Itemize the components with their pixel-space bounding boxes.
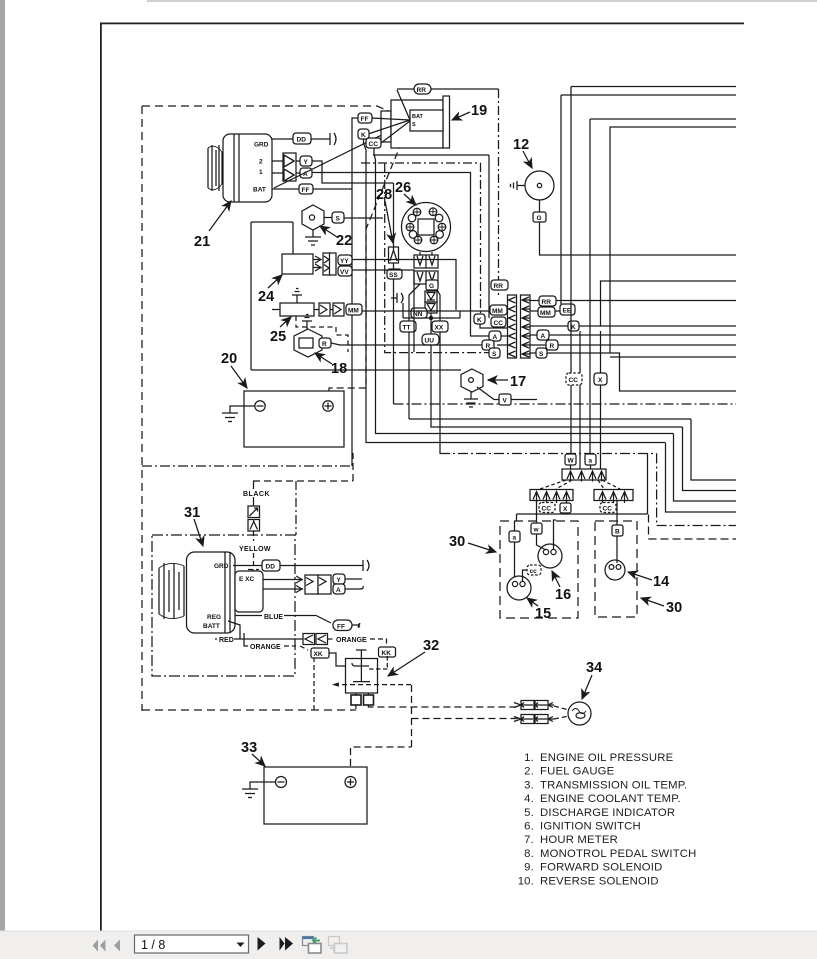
wire CC switch drop [374,148,674,434]
node junction NN [429,316,433,320]
svg-text:3.: 3. [524,779,534,791]
label 25 [270,329,286,345]
first page button [93,940,106,952]
svg-text:5.: 5. [524,807,534,819]
socket 16 [538,544,562,568]
connector R right [546,340,558,350]
connector strip left [508,295,517,358]
wire R run [530,344,736,346]
svg-text:RED: RED [219,637,234,644]
wire MM-EE link [530,310,560,312]
pedal switch 32 assembly [334,650,412,693]
svg-text:16: 16 [555,587,571,603]
dashed battery cable to switch [377,106,409,120]
leader 26 [404,194,416,205]
connector Y [300,156,312,166]
svg-text:FF: FF [361,116,369,123]
leader 18 [315,353,332,364]
svg-text:31: 31 [184,505,200,521]
svg-text:TT: TT [403,325,411,332]
svg-text:W: W [568,458,575,465]
connector XK [311,648,329,658]
wire ORANGE lower [244,633,248,646]
label 31 [184,505,200,521]
leader 12 [523,151,532,168]
label 12 [513,137,529,153]
svg-text:ORANGE: ORANGE [336,637,367,644]
svg-text:1.: 1. [524,752,534,764]
regulator EXC box [235,571,263,612]
previous view icon [303,937,322,954]
connector RR left [491,280,508,290]
svg-text:BATT: BATT [203,623,220,630]
svg-text:9.: 9. [524,862,534,874]
staircase wire 6 dashed [649,515,737,540]
svg-text:14: 14 [653,574,669,590]
lamp bar right [594,490,633,504]
wire junction row [403,311,683,427]
lamp bar left [530,490,573,504]
lamp 34 [568,702,591,725]
connector UU [422,334,439,345]
svg-text:E XC: E XC [239,576,254,583]
svg-text:ENGINE OIL PRESSURE: ENGINE OIL PRESSURE [540,752,674,764]
svg-text:REVERSE SOLENOID: REVERSE SOLENOID [540,875,659,887]
battery 20 [244,391,344,447]
connector A [300,168,312,178]
svg-text:X: X [563,506,568,513]
connector A gen [333,584,345,594]
connector CC left [491,317,506,327]
alternator terminal labels [253,142,269,194]
svg-text:CC: CC [494,320,504,327]
svg-text:a: a [513,535,517,542]
leader 32 [388,652,425,676]
diode 1 [425,291,437,302]
connector FF alternator [299,184,313,194]
leader 21 [209,201,231,231]
generator excite contacts [263,575,331,594]
wire YELLOW [248,531,259,571]
instrument panel box [610,127,736,357]
next view icon disabled [329,937,348,954]
wire row2 to G diode chain [431,284,433,287]
svg-text:HOUR METER: HOUR METER [540,834,618,846]
svg-text:1: 1 [259,169,263,176]
connector XX [432,321,448,332]
label 24 [258,289,274,305]
connector MM left [490,305,507,315]
resistor 25 box [272,289,314,317]
label 17 [510,374,526,390]
wire B harness [590,119,736,455]
connector EE [560,304,575,315]
svg-text:REG: REG [207,614,221,621]
svg-text:w: w [533,527,540,534]
connector b top [585,454,596,465]
connector V [499,394,511,405]
condenser gen [363,560,369,571]
connector FF oval gen [333,620,352,631]
svg-text:FORWARD SOLENOID: FORWARD SOLENOID [540,862,662,874]
pedal contact right [364,693,374,705]
wire Y A stubs [345,579,363,589]
svg-text:26: 26 [395,180,411,196]
connector K switch [358,129,369,139]
staircase wire 2 [683,427,737,491]
sender 17 hexagon [461,369,499,400]
connector SS [387,269,402,279]
wire K stub to strip [480,324,507,328]
wire w to socket16 [537,501,547,551]
connector DD gen [262,560,280,571]
svg-text:RR: RR [417,87,427,94]
last page button [280,937,294,951]
toolbar background [0,931,817,959]
svg-text:S: S [539,351,544,358]
wire socket16 right pin [554,520,557,549]
sender 24 contacts [313,253,336,275]
leader 25 [280,317,291,327]
svg-text:6.: 6. [524,821,534,833]
connector A left [489,331,501,341]
svg-text:30: 30 [666,600,682,616]
svg-text:S: S [336,216,341,223]
svg-text:7.: 7. [524,834,534,846]
connector CC bar left [539,503,555,513]
svg-text:V: V [503,398,508,405]
ground sender 22 [305,230,321,245]
svg-text:2.: 2. [524,766,534,778]
wire FF net riser [352,118,358,189]
leader 19 [452,112,470,120]
wire battery33 to lamp row2 [351,685,521,766]
leader 22 [320,226,337,237]
wire GRD to condenser gen [233,565,363,567]
svg-text:DD: DD [297,137,307,144]
generator 31 body [159,552,235,633]
viewer top hairline [147,0,817,2]
connector K right [568,321,579,331]
lamp box 30 right [595,521,637,617]
label 15 [535,606,551,622]
svg-text:FF: FF [302,187,310,194]
svg-text:20: 20 [221,351,237,367]
label 34 [586,660,602,676]
battery 33 [264,767,367,824]
svg-text:IGNITION SWITCH: IGNITION SWITCH [540,821,641,833]
dash-dot S wire from switch [361,163,481,316]
socket 14 [605,560,625,580]
connector MM right [538,307,555,317]
wire MM run to strip [362,310,507,312]
svg-text:Y: Y [304,159,309,166]
connector S left [489,348,500,358]
svg-text:ENGINE COOLANT TEMP.: ENGINE COOLANT TEMP. [540,793,681,805]
wire SS drop to harness [393,279,395,404]
svg-text:K: K [571,324,576,331]
page frame top edge [100,23,744,25]
svg-text:MM: MM [492,308,503,315]
svg-text:S: S [412,122,416,128]
wire YY run [352,260,456,311]
svg-text:UU: UU [425,338,435,345]
wire orange dashed to KK [328,639,387,648]
wire G horn [539,200,541,212]
wire pairs to lamp 34 [554,706,569,719]
lamp connector pair row1 [514,701,554,710]
label 22 [336,233,352,249]
connector strip right [521,295,531,358]
lamp connector pair row2 [514,715,554,724]
svg-text:34: 34 [586,660,602,676]
svg-text:19: 19 [471,103,487,119]
hour meter connector row 2 [414,271,438,284]
viewer left scrollbar strip [0,0,5,931]
leader 30 left [468,543,496,552]
connector CC bar right [600,503,616,513]
leader 17 [488,379,508,381]
leader 16 [552,571,560,587]
condenser near NN [391,293,403,318]
prev page button [114,940,120,952]
svg-text:GRD: GRD [214,563,229,570]
wire RR run [530,300,736,302]
svg-text:21: 21 [194,234,210,250]
connector B lamp [612,525,623,536]
svg-text:cc: cc [530,568,538,575]
wire CC lamp harness [579,331,581,470]
svg-text:BAT: BAT [412,114,424,120]
wire B to socket14 [616,501,618,564]
svg-text:25: 25 [270,329,286,345]
label 30 right [666,600,682,616]
staircase wire 4 [666,443,737,512]
wire a to socket15 [514,521,516,577]
wire S run with jog [530,353,736,391]
connector G meter [426,280,438,290]
svg-text:TRANSMISSION OIL TEMP.: TRANSMISSION OIL TEMP. [540,779,687,791]
svg-text:MM: MM [540,310,551,317]
ignition switch 19 [381,96,450,148]
wire BAT through FF [272,188,352,190]
label 28 [376,187,392,203]
connector X mid [594,373,607,385]
connector w top [565,454,576,465]
dashed wire bottom to pedal switch [142,709,356,711]
dashed splice right [598,480,620,489]
wire Y to fuse column [296,161,394,183]
dash-dot S drop left [385,163,489,353]
svg-text:R: R [322,341,327,348]
svg-text:B: B [615,529,620,536]
connector KK [379,647,396,657]
svg-text:GRD: GRD [254,142,269,149]
svg-text:1 / 8: 1 / 8 [141,938,165,952]
dashed black-wire harness segment [253,453,353,481]
wire A long to connector strip [296,173,507,337]
hour meter connector row 1 [414,252,438,268]
wire long to sender 17 [251,369,461,371]
wire BLACK drop [253,481,255,506]
dashed link resistor to S harness [296,316,348,352]
svg-text:SS: SS [389,272,398,279]
label 33 [241,740,257,756]
label 26 [395,180,411,196]
svg-text:15: 15 [535,606,551,622]
wire G run right [540,222,737,255]
connector FF switch [358,113,372,123]
svg-text:ORANGE: ORANGE [250,644,281,651]
leader 31 [194,519,203,546]
wire FF net to harness dashdot [351,189,353,466]
ground battery 33 [242,782,276,798]
svg-text:RR: RR [542,299,552,306]
wire pedal left contact drop [355,705,357,710]
svg-text:MONOTROL PEDAL SWITCH: MONOTROL PEDAL SWITCH [540,848,697,860]
svg-text:YY: YY [340,258,349,265]
dashed harness border top [142,105,377,107]
ground battery 20 [222,406,255,422]
wire XK to pedal [329,653,346,666]
wire XK riser [313,658,315,710]
wire X lamp harness [600,331,602,470]
svg-text:24: 24 [258,289,274,305]
connector RR oval [414,84,431,94]
svg-text:32: 32 [423,638,439,654]
label 18 [331,361,347,377]
svg-text:28: 28 [376,187,392,203]
connector S right [536,348,547,358]
wire RR from switch [397,88,499,90]
svg-text:G: G [429,283,434,290]
generator terminal labels [203,563,229,630]
wire pedal to lamp row1 [368,705,520,707]
connector a lamp [509,531,520,542]
connector K left [474,314,485,324]
svg-text:a: a [589,458,593,465]
page frame left edge [100,23,102,932]
wire V stub [511,399,537,401]
svg-text:2: 2 [259,159,263,166]
svg-text:KK: KK [382,650,392,657]
connector NN [411,308,427,318]
wire GRD to condenser [272,138,330,140]
leader 14 [628,572,652,580]
main harness connector bar [562,465,606,482]
svg-text:18: 18 [331,361,347,377]
label 20 [221,351,237,367]
wire W harness [571,87,736,456]
staircase wire 3 [674,434,737,502]
dashed cable switch to battery 20 [329,122,410,392]
svg-text:VV: VV [340,269,349,276]
hour meter 26 [402,203,451,252]
contact arrows terminals 2 and 1 [272,153,296,181]
alternator 21 [208,134,272,202]
svg-text:FUEL GAUGE: FUEL GAUGE [540,766,615,778]
wire dashed to XK [284,646,308,650]
staircase wire 5 bend [657,454,736,526]
leader 30 right [641,598,664,606]
label 30 left [449,534,465,550]
leader 15 [527,598,538,606]
socket 15 [507,576,531,600]
wire FF squiggle [352,624,360,628]
connector TT [400,321,416,332]
leader 24 [268,275,282,288]
connector DD [293,133,311,144]
page combo box [135,935,249,953]
wire BLUE [235,616,331,624]
staircase wire 1 [691,419,736,480]
dashed splice left [540,480,572,489]
next page button [258,937,266,951]
connector G horn [533,212,546,222]
wire K run [530,325,736,327]
leader 33 [252,754,265,766]
dash-dot stub above generator box [295,481,297,535]
dash-dot harness line upper [142,465,352,467]
switch fan wires [368,90,410,143]
wire row2 to XX column [434,284,440,454]
connector YY [338,255,352,265]
svg-text:30: 30 [449,534,465,550]
svg-text:Y: Y [337,577,342,584]
diode 2 [425,302,437,313]
wire KK to pedal [369,656,387,669]
pedal contact left [351,693,361,705]
label 19 [471,103,487,119]
svg-text:R: R [550,343,555,350]
svg-text:MM: MM [348,308,359,315]
leader 20 [231,366,247,388]
horn 12 [510,171,554,200]
svg-text:YELLOW: YELLOW [239,546,271,553]
wire row2 to TT column [409,284,420,419]
svg-text:RR: RR [494,283,504,290]
connector cc lamp [527,565,541,575]
svg-text:DISCHARGE INDICATOR: DISCHARGE INDICATOR [540,807,675,819]
fuse 28 [389,183,399,269]
svg-text:22: 22 [336,233,352,249]
dashed harness border left [141,106,143,711]
connector X bar left [560,503,571,513]
leader 34 [582,675,592,699]
wire ACC solid from switch [373,155,489,318]
svg-text:BLACK: BLACK [243,491,270,498]
wire BAT cable diagonal to switch [274,122,409,189]
connector square 2 [248,520,260,532]
label 32 [423,638,439,654]
svg-text:XX: XX [435,325,444,332]
svg-text:BLUE: BLUE [264,614,283,621]
svg-text:10.: 10. [518,875,534,887]
wire K switch drop [364,139,666,443]
wire A run [530,334,736,336]
label 14 [653,574,669,590]
svg-text:S: S [492,351,497,358]
svg-text:17: 17 [510,374,526,390]
wire cc to socket15 [523,570,528,581]
sender 24 box [282,254,313,274]
generator boundary box 31 [152,535,295,676]
label 21 [194,234,210,250]
svg-text:A: A [541,333,546,340]
wire TT corner run [409,418,691,420]
connector S sender22 [332,212,344,223]
connector CC switch [366,138,381,148]
